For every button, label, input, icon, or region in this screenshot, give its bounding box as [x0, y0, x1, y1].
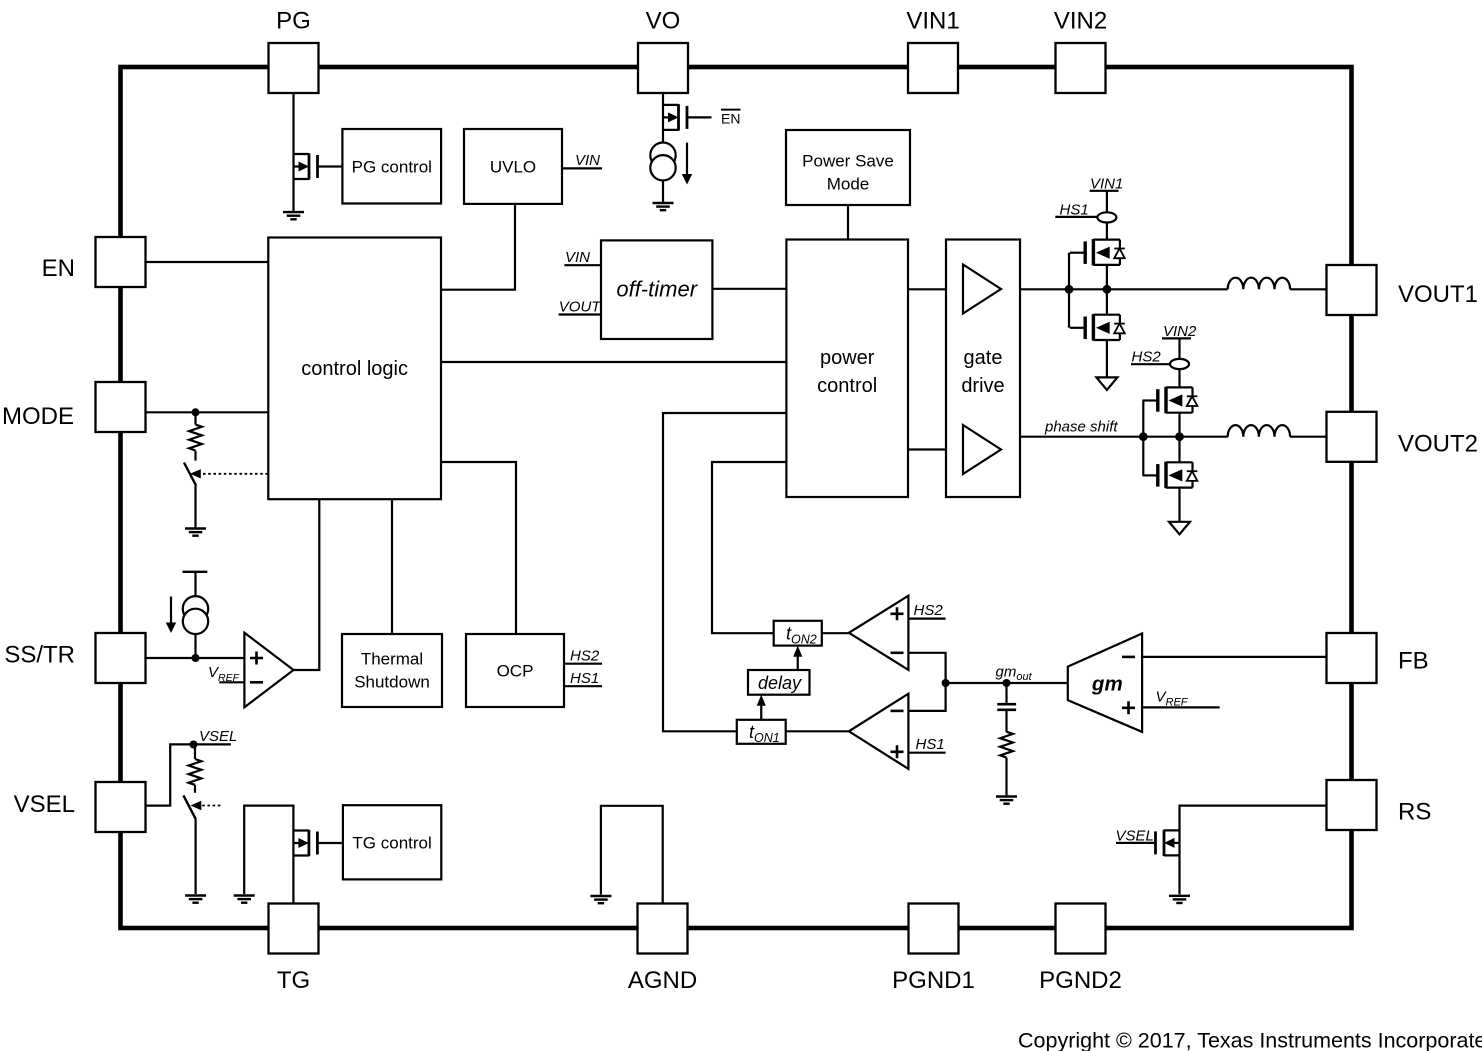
svg-text:EN: EN: [721, 110, 740, 126]
svg-text:control logic: control logic: [301, 358, 408, 380]
svg-text:phase shift: phase shift: [1044, 419, 1118, 436]
svg-text:VREF: VREF: [208, 664, 240, 684]
svg-text:control: control: [817, 375, 877, 397]
svg-text:VOUT2: VOUT2: [1398, 431, 1478, 458]
svg-text:VO: VO: [646, 8, 681, 35]
svg-text:OCP: OCP: [497, 662, 534, 681]
svg-text:FB: FB: [1398, 648, 1429, 675]
svg-text:PGND1: PGND1: [892, 967, 975, 994]
svg-text:UVLO: UVLO: [490, 158, 536, 177]
svg-text:drive: drive: [961, 375, 1004, 397]
svg-text:Power Save: Power Save: [802, 152, 894, 171]
svg-text:power: power: [820, 347, 875, 369]
svg-text:VIN2: VIN2: [1054, 8, 1107, 35]
svg-text:VSEL: VSEL: [1116, 827, 1154, 844]
svg-text:HS2: HS2: [1132, 349, 1162, 366]
svg-text:SS/TR: SS/TR: [4, 642, 75, 669]
svg-text:HS1: HS1: [570, 670, 599, 687]
svg-text:Mode: Mode: [827, 175, 870, 194]
svg-text:VSEL: VSEL: [199, 728, 237, 745]
svg-text:gmout: gmout: [996, 664, 1033, 684]
svg-text:HS1: HS1: [916, 736, 945, 753]
svg-text:VIN2: VIN2: [1163, 323, 1197, 340]
svg-text:PG control: PG control: [352, 157, 432, 176]
svg-text:AGND: AGND: [628, 967, 697, 994]
svg-text:HS1: HS1: [1060, 201, 1089, 218]
svg-text:EN: EN: [42, 255, 75, 282]
svg-text:RS: RS: [1398, 799, 1431, 826]
svg-text:VIN: VIN: [565, 249, 590, 266]
svg-text:Copyright © 2017, Texas Instru: Copyright © 2017, Texas Instruments Inco…: [1018, 1029, 1482, 1051]
svg-text:gm: gm: [1091, 673, 1123, 696]
svg-text:HS2: HS2: [570, 648, 600, 665]
svg-text:TG: TG: [277, 967, 310, 994]
svg-text:delay: delay: [758, 673, 802, 693]
svg-text:PGND2: PGND2: [1039, 967, 1122, 994]
svg-text:VREF: VREF: [1156, 689, 1189, 709]
svg-text:Shutdown: Shutdown: [354, 673, 430, 692]
svg-text:VOUT1: VOUT1: [1398, 281, 1478, 308]
svg-text:TG control: TG control: [352, 833, 431, 852]
svg-text:HS2: HS2: [914, 602, 944, 619]
svg-text:VIN1: VIN1: [1090, 175, 1123, 192]
svg-text:MODE: MODE: [2, 403, 74, 430]
svg-text:PG: PG: [276, 8, 311, 35]
svg-text:VIN: VIN: [575, 152, 600, 169]
svg-text:VSEL: VSEL: [14, 791, 75, 818]
svg-text:VOUT: VOUT: [559, 298, 603, 315]
svg-text:gate: gate: [964, 347, 1003, 369]
svg-text:off-timer: off-timer: [616, 277, 698, 302]
svg-text:VIN1: VIN1: [906, 8, 959, 35]
svg-text:Thermal: Thermal: [361, 650, 423, 669]
